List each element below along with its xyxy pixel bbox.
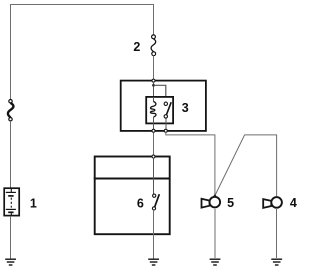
terminal: relay output contact side (bottom right) [164,129,167,132]
battery plate short bottom [8,211,13,213]
wire: left vertical feed down to fusible link [10,4,12,100]
wire: horn 5 to ground [214,209,216,258]
relay 3 inner box [146,97,173,124]
junction: coil/contact feed [152,84,155,87]
wire: inside switch 6, input to contact [153,158,155,194]
ground (battery) [5,259,16,265]
wire: fuse 2 to relay 3 [153,56,155,80]
horn 4 [263,197,282,208]
terminal: relay input (top) [152,79,155,82]
wire: switch 6 to ground [153,210,155,258]
svg-text:6: 6 [137,196,144,210]
battery plate long top [6,191,16,193]
relay switch blade [166,102,171,115]
wire: relay input to junction [153,82,155,97]
ground (switch 6) [148,259,159,265]
battery plate short top [8,195,13,197]
switch 6 blade [155,194,160,207]
relay switch: moving contact (bottom) [164,115,167,118]
wire: relay contact output to horn 5 [166,132,215,196]
fusible link (unlabeled) on left feed [8,100,14,121]
battery dashed middle [10,198,12,208]
wire: diagonal from horn 5 node up to horn 4 feed [215,135,276,196]
battery plate long bottom [6,208,16,210]
switch 6 box divider [94,178,170,180]
wire: relay coil output down to switch 6 [153,132,155,155]
battery top stub [10,188,12,192]
wire: coil to relay output terminal [153,117,155,131]
switch 6: moving contact (bottom) [152,207,155,210]
wire: battery to ground [10,216,12,258]
svg-text:5: 5 [227,196,234,210]
svg-text:2: 2 [133,40,140,54]
battery bottom stub [10,212,12,216]
wire: inner box top to coil [153,97,155,102]
svg-text:4: 4 [290,196,297,210]
wire: horn 4 to ground [276,209,278,258]
relay switch: fixed contact (top) [164,102,167,105]
wire: switch contact down segment [165,118,167,131]
svg-text:1: 1 [30,196,37,210]
wire: fusible link to battery 1 [10,121,12,188]
wire: top bus down to fuse 2 [153,4,155,35]
switch 6 box [95,157,170,235]
battery 1 (boxed) [4,188,19,216]
svg-text:3: 3 [182,101,189,115]
relay 3 outer case [121,81,206,131]
switch 6: fixed contact (top) [153,194,156,197]
ground (horn 5) [210,259,221,265]
wire: branch to switch contact [154,85,166,97]
relay coil [150,102,156,118]
terminal: switch 6 input (top) [152,155,155,158]
fuse 2 [151,35,156,56]
terminal: relay output coil side (bottom left) [152,129,155,132]
ground (horn 4) [271,259,282,265]
horn 5 [202,197,221,208]
wire: top horizontal bus [11,4,154,6]
junction: horn 5 node [214,194,216,196]
